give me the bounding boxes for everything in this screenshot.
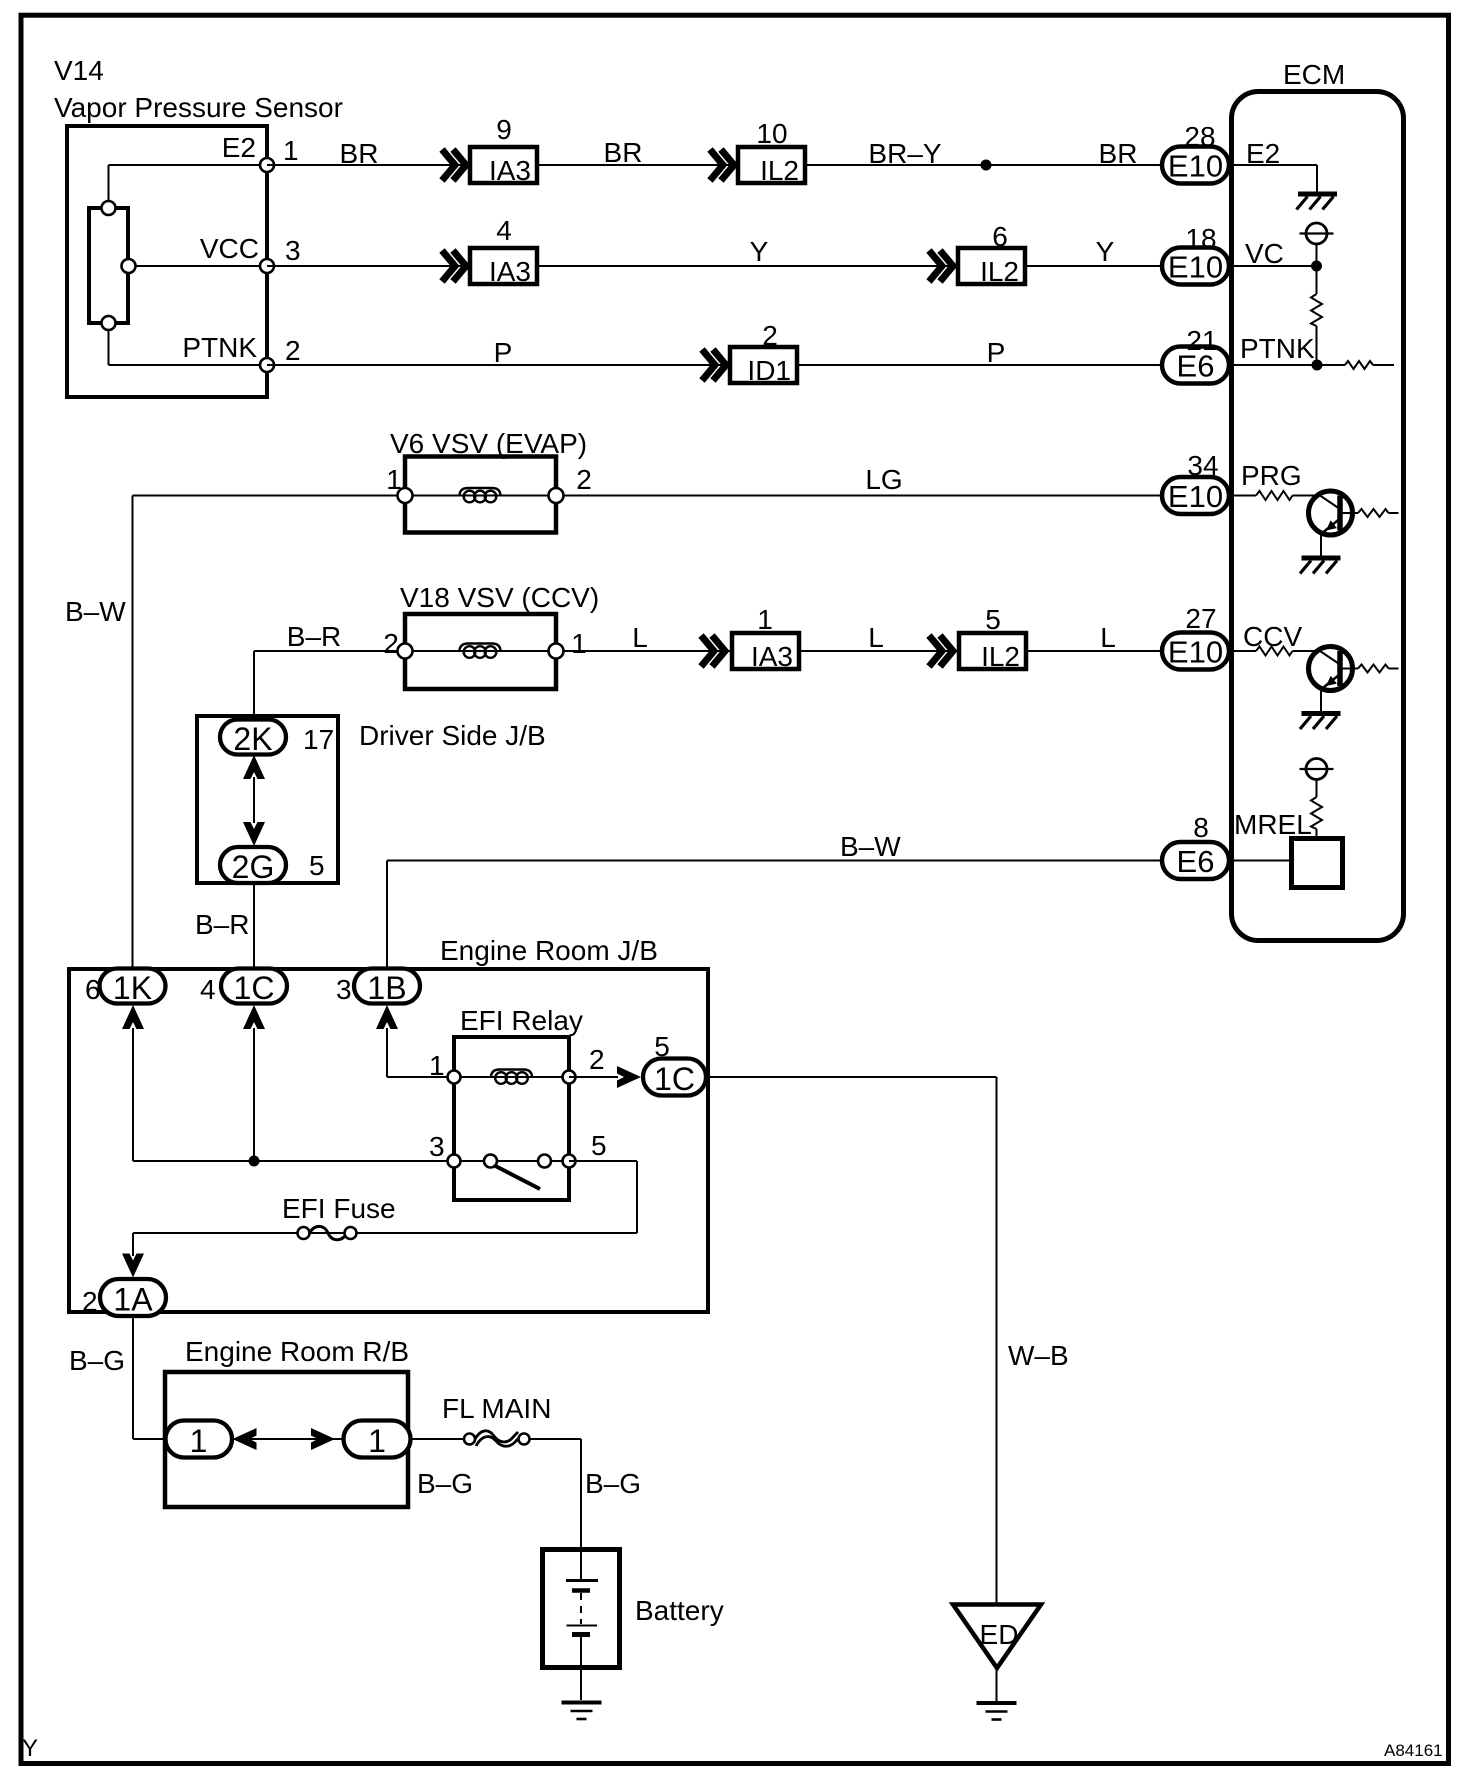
svg-text:BR: BR — [1099, 138, 1138, 169]
svg-text:B–R: B–R — [287, 621, 341, 652]
svg-text:VC: VC — [1245, 238, 1284, 269]
svg-text:L: L — [1100, 622, 1116, 653]
svg-text:2: 2 — [82, 1286, 98, 1317]
svg-text:2: 2 — [589, 1044, 605, 1075]
svg-text:1: 1 — [190, 1423, 208, 1459]
svg-text:ED: ED — [980, 1619, 1019, 1650]
svg-text:1C: 1C — [234, 970, 275, 1006]
svg-text:FL MAIN: FL MAIN — [442, 1393, 551, 1424]
svg-text:6: 6 — [992, 221, 1008, 252]
svg-text:1: 1 — [386, 464, 402, 495]
svg-text:B–G: B–G — [585, 1468, 641, 1499]
svg-text:EFI Fuse: EFI Fuse — [282, 1193, 396, 1224]
svg-text:Vapor Pressure Sensor: Vapor Pressure Sensor — [54, 92, 343, 123]
svg-text:B–R: B–R — [195, 909, 249, 940]
svg-text:E6: E6 — [1177, 844, 1215, 879]
svg-text:1: 1 — [429, 1050, 445, 1081]
svg-text:BR: BR — [604, 137, 643, 168]
svg-text:1B: 1B — [367, 970, 406, 1006]
svg-text:LG: LG — [865, 464, 902, 495]
svg-text:1: 1 — [757, 604, 773, 635]
svg-text:BR: BR — [340, 138, 379, 169]
svg-text:E10: E10 — [1168, 250, 1223, 285]
svg-text:6: 6 — [85, 974, 101, 1005]
svg-text:2: 2 — [762, 320, 778, 351]
svg-text:ID1: ID1 — [747, 355, 791, 386]
svg-text:2: 2 — [576, 464, 592, 495]
svg-text:Y: Y — [1096, 236, 1115, 267]
svg-text:5: 5 — [985, 604, 1001, 635]
svg-text:3: 3 — [429, 1131, 445, 1162]
svg-text:B–G: B–G — [417, 1468, 473, 1499]
svg-text:3: 3 — [336, 974, 352, 1005]
svg-text:1: 1 — [368, 1423, 386, 1459]
svg-text:5: 5 — [654, 1031, 670, 1062]
svg-text:E10: E10 — [1168, 479, 1223, 514]
svg-text:IA3: IA3 — [489, 256, 531, 287]
svg-text:4: 4 — [496, 215, 512, 246]
svg-text:E2: E2 — [222, 132, 256, 163]
svg-text:17: 17 — [303, 724, 334, 755]
svg-text:W–B: W–B — [1008, 1340, 1069, 1371]
svg-text:A84161: A84161 — [1384, 1741, 1443, 1760]
svg-text:1: 1 — [283, 135, 299, 166]
svg-text:Battery: Battery — [635, 1595, 724, 1626]
svg-text:34: 34 — [1187, 450, 1218, 481]
svg-text:V14: V14 — [54, 55, 104, 86]
svg-text:Y: Y — [750, 236, 769, 267]
svg-text:2G: 2G — [232, 849, 275, 885]
svg-text:21: 21 — [1186, 325, 1217, 356]
svg-text:9: 9 — [496, 114, 512, 145]
svg-text:2: 2 — [285, 335, 301, 366]
svg-text:1: 1 — [571, 628, 587, 659]
svg-text:18: 18 — [1185, 223, 1216, 254]
svg-text:Engine Room J/B: Engine Room J/B — [440, 935, 658, 966]
svg-text:B–W: B–W — [840, 831, 901, 862]
svg-text:P: P — [494, 337, 513, 368]
svg-text:IL2: IL2 — [980, 256, 1019, 287]
svg-text:PRG: PRG — [1241, 460, 1302, 491]
svg-text:PTNK: PTNK — [182, 332, 257, 363]
svg-text:B–G: B–G — [69, 1345, 125, 1376]
svg-text:2: 2 — [383, 628, 399, 659]
svg-text:5: 5 — [591, 1130, 607, 1161]
svg-text:IA3: IA3 — [489, 155, 531, 186]
svg-text:2K: 2K — [233, 721, 272, 757]
svg-text:MREL: MREL — [1234, 809, 1312, 840]
svg-text:Engine Room R/B: Engine Room R/B — [185, 1336, 409, 1367]
svg-text:L: L — [868, 622, 884, 653]
svg-text:EFI Relay: EFI Relay — [460, 1005, 583, 1036]
svg-text:1A: 1A — [113, 1282, 153, 1318]
svg-text:IL2: IL2 — [981, 641, 1020, 672]
svg-text:28: 28 — [1184, 121, 1215, 152]
svg-text:10: 10 — [756, 118, 787, 149]
svg-text:B–W: B–W — [65, 596, 126, 627]
svg-text:ECM: ECM — [1283, 59, 1345, 90]
svg-text:E10: E10 — [1168, 149, 1223, 184]
svg-text:V18 VSV (CCV): V18 VSV (CCV) — [400, 582, 599, 613]
svg-text:5: 5 — [309, 850, 325, 881]
svg-text:4: 4 — [200, 974, 216, 1005]
svg-text:1K: 1K — [113, 970, 152, 1006]
svg-text:BR–Y: BR–Y — [868, 138, 941, 169]
svg-text:IA3: IA3 — [751, 641, 793, 672]
svg-text:PTNK: PTNK — [1240, 333, 1315, 364]
svg-text:3: 3 — [285, 235, 301, 266]
svg-text:IL2: IL2 — [760, 155, 799, 186]
svg-text:E10: E10 — [1168, 635, 1223, 670]
svg-text:L: L — [632, 622, 648, 653]
svg-text:1C: 1C — [654, 1061, 695, 1097]
svg-text:Y: Y — [22, 1735, 38, 1762]
svg-text:Driver Side J/B: Driver Side J/B — [359, 720, 546, 751]
svg-text:27: 27 — [1185, 603, 1216, 634]
svg-text:VCC: VCC — [200, 233, 259, 264]
svg-text:P: P — [987, 337, 1006, 368]
svg-text:8: 8 — [1193, 812, 1209, 843]
